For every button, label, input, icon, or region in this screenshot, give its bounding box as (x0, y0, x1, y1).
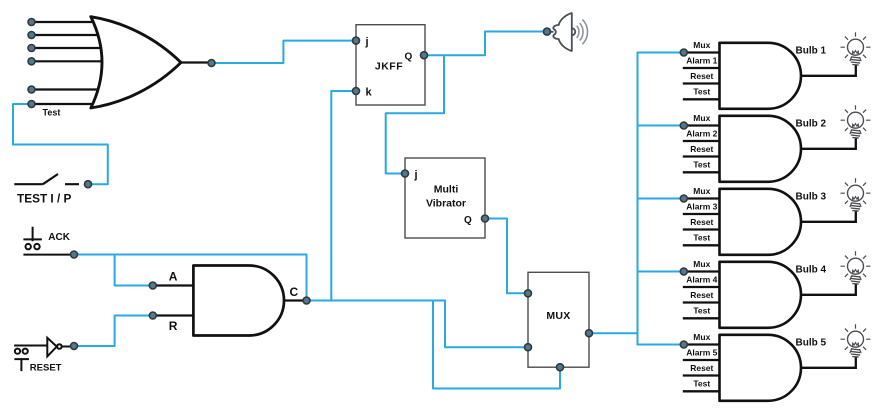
svg-text:j: j (365, 36, 369, 48)
svg-text:Test: Test (43, 108, 61, 118)
svg-text:Reset: Reset (690, 144, 713, 154)
svg-text:R: R (169, 319, 178, 333)
AND gate G3 (Bulb 3) (720, 189, 802, 255)
wire Reset input line (G3) (683, 228, 720, 230)
wire A input line (153, 284, 194, 286)
node OR input 6 (28, 101, 35, 108)
wire OR input 6 (32, 103, 94, 105)
svg-text:Q: Q (464, 215, 472, 226)
wire OR input 1 (32, 21, 95, 23)
wire G2 output to bulb (801, 138, 856, 149)
node OR input 4 (28, 58, 35, 65)
wire bus stub to gate 5 Mux input (638, 344, 681, 346)
node OR input 3 (28, 45, 35, 52)
wire OR output (181, 61, 212, 63)
wire G5 output to bulb (801, 357, 856, 368)
wire Reset input line (G2) (683, 155, 720, 157)
svg-text:Bulb 4: Bulb 4 (796, 264, 827, 275)
wire bulb-gate mux bus vertical (637, 53, 639, 345)
wire Reset input line (G5) (683, 374, 720, 376)
wire JKFF Q branch to MultiVibrator J (386, 55, 444, 173)
wire MultiVibrator Q to MUX left-top pin (485, 219, 525, 294)
lamp Bulb 2 icon (841, 105, 871, 138)
switch TEST I/P (14, 174, 79, 184)
wire Mux input line (G3) (683, 197, 720, 199)
node MultiVibrator J pin (402, 170, 409, 177)
wire branch to A input (115, 255, 150, 286)
wire Test input line (G1) (683, 98, 720, 100)
wire Alarm 3 input line (G3) (683, 213, 720, 215)
node ACK output (71, 251, 78, 258)
node G5 Mux input (680, 341, 687, 348)
svg-text:Bulb 2: Bulb 2 (796, 118, 827, 129)
svg-text:Test: Test (693, 160, 710, 170)
svg-text:Test: Test (693, 306, 710, 316)
node G3 Mux input (680, 195, 687, 202)
svg-text:Bulb 3: Bulb 3 (796, 191, 827, 202)
wire Alarm 2 input line (G2) (683, 140, 720, 142)
svg-text:A: A (169, 270, 178, 284)
wire OR input 4 (32, 60, 102, 62)
node MUX output pin (586, 330, 593, 337)
svg-text:Alarm 5: Alarm 5 (686, 347, 717, 357)
node R input (149, 312, 156, 319)
wire Test net (OR Test input to TEST I/P switch) (13, 104, 108, 184)
svg-text:Alarm 2: Alarm 2 (686, 128, 717, 138)
svg-text:Test: Test (693, 379, 710, 389)
node JKFF K pin (353, 88, 360, 95)
inverter RESET (14, 338, 71, 371)
wire Mux input line (G2) (683, 124, 720, 126)
node OR input 2 (28, 32, 35, 39)
svg-text:Reset: Reset (690, 290, 713, 300)
wire G1 output to bulb (801, 65, 856, 76)
node TEST I/P switch output (85, 181, 92, 188)
node C output junction (303, 297, 310, 304)
node G4 Mux input (680, 268, 687, 275)
wire node C to MUX left-lower pin (307, 301, 526, 348)
svg-text:Bulb 1: Bulb 1 (796, 45, 827, 56)
wire R input line (153, 314, 194, 316)
svg-text:Mux: Mux (693, 113, 710, 123)
svg-text:Mux: Mux (693, 332, 710, 342)
multiplexer MUX U5 (528, 272, 589, 367)
wire node C branch to MUX bottom pin (433, 301, 560, 389)
wire bus stub to gate 3 Mux input (638, 198, 681, 200)
wire JKFF K to node C (331, 91, 356, 301)
AND gate G4 (Bulb 4) (720, 262, 802, 328)
wire Reset input line (G4) (683, 301, 720, 303)
node MUX left-lower pin (525, 344, 532, 351)
wire Test input line (G4) (683, 317, 720, 319)
svg-text:Alarm 3: Alarm 3 (686, 201, 717, 211)
node A input (149, 282, 156, 289)
wire C output line (284, 299, 303, 301)
node MultiVibrator Q pin (482, 215, 489, 222)
wire Reset input line (G1) (683, 82, 720, 84)
node MUX left-top pin (525, 290, 532, 297)
svg-text:Vibrator: Vibrator (426, 198, 466, 210)
svg-text:Alarm 1: Alarm 1 (686, 55, 717, 65)
wire Alarm 1 input line (G1) (683, 67, 720, 69)
node RESET inverter output (71, 343, 78, 350)
wire OR input 3 (32, 47, 101, 49)
wire bus stub to gate 4 Mux input (638, 271, 681, 273)
wire OR input 5 (32, 88, 99, 90)
svg-text:k: k (366, 87, 373, 99)
AND gate G1 (Bulb 1) (720, 43, 802, 109)
node G1 Mux input (680, 49, 687, 56)
wire OR output to JKFF J (212, 41, 353, 63)
node JKFF Q pin (421, 52, 428, 59)
svg-text:Alarm 4: Alarm 4 (686, 274, 717, 284)
svg-text:ACK: ACK (48, 232, 70, 243)
wire G3 output to bulb (801, 211, 856, 222)
wire OR input 2 (32, 34, 99, 36)
wire G4 output to bulb (801, 284, 856, 295)
lamp Bulb 3 icon (841, 178, 871, 211)
svg-text:j: j (414, 169, 418, 181)
svg-text:Test: Test (693, 233, 710, 243)
lamp Bulb 4 icon (841, 251, 871, 284)
wire MUX output to bus (589, 332, 638, 334)
node G2 Mux input (680, 122, 687, 129)
AND gate G2 (Bulb 2) (720, 116, 802, 182)
node OR input 1 (28, 19, 35, 26)
node OR output junction (208, 60, 215, 67)
AND gate G5 (Bulb 5) (720, 335, 802, 401)
speaker sound waves (577, 19, 588, 44)
multivibrator U4 (405, 158, 485, 238)
wire Alarm 5 input line (G5) (683, 359, 720, 361)
pushbutton ACK (23, 227, 71, 255)
svg-text:Q: Q (405, 52, 413, 63)
node OR input 5 (28, 86, 35, 93)
wire Test input line (G5) (683, 390, 720, 392)
svg-text:Mux: Mux (693, 259, 710, 269)
svg-text:Reset: Reset (690, 71, 713, 81)
wire bus stub to gate 1 Mux input (638, 52, 681, 54)
svg-text:RESET: RESET (30, 362, 62, 373)
svg-text:Mux: Mux (693, 40, 710, 50)
wire Test input line (G2) (683, 171, 720, 173)
wire Alarm 4 input line (G4) (683, 286, 720, 288)
svg-text:TEST I / P: TEST I / P (17, 192, 72, 206)
svg-text:Reset: Reset (690, 217, 713, 227)
wire Mux input line (G4) (683, 270, 720, 272)
flip-flop JKFF U3 (356, 25, 425, 105)
svg-text:Mux: Mux (693, 186, 710, 196)
svg-text:Multi: Multi (434, 184, 459, 196)
svg-text:Test: Test (693, 87, 710, 97)
svg-text:MUX: MUX (546, 310, 570, 322)
AND gate U2 (193, 266, 284, 336)
wire bus stub to gate 2 Mux input (638, 125, 681, 127)
svg-text:Bulb 5: Bulb 5 (796, 337, 827, 348)
svg-text:Reset: Reset (690, 363, 713, 373)
wire RESET to R input (74, 316, 150, 347)
wire ACK to node C (74, 255, 307, 301)
node MUX bottom pin (557, 364, 564, 371)
speaker LS1 (550, 13, 575, 51)
svg-text:JKFF: JKFF (375, 61, 403, 73)
wire JKFF Q to speaker (423, 32, 545, 56)
node JKFF J pin (353, 37, 360, 44)
wire Mux input line (G5) (683, 343, 720, 345)
node speaker input (544, 28, 551, 35)
svg-text:C: C (290, 285, 299, 299)
wire Test input line (G3) (683, 244, 720, 246)
lamp Bulb 1 icon (841, 32, 871, 65)
lamp Bulb 5 icon (841, 324, 871, 357)
wire Mux input line (G1) (683, 51, 720, 53)
OR gate U1 (91, 17, 181, 108)
